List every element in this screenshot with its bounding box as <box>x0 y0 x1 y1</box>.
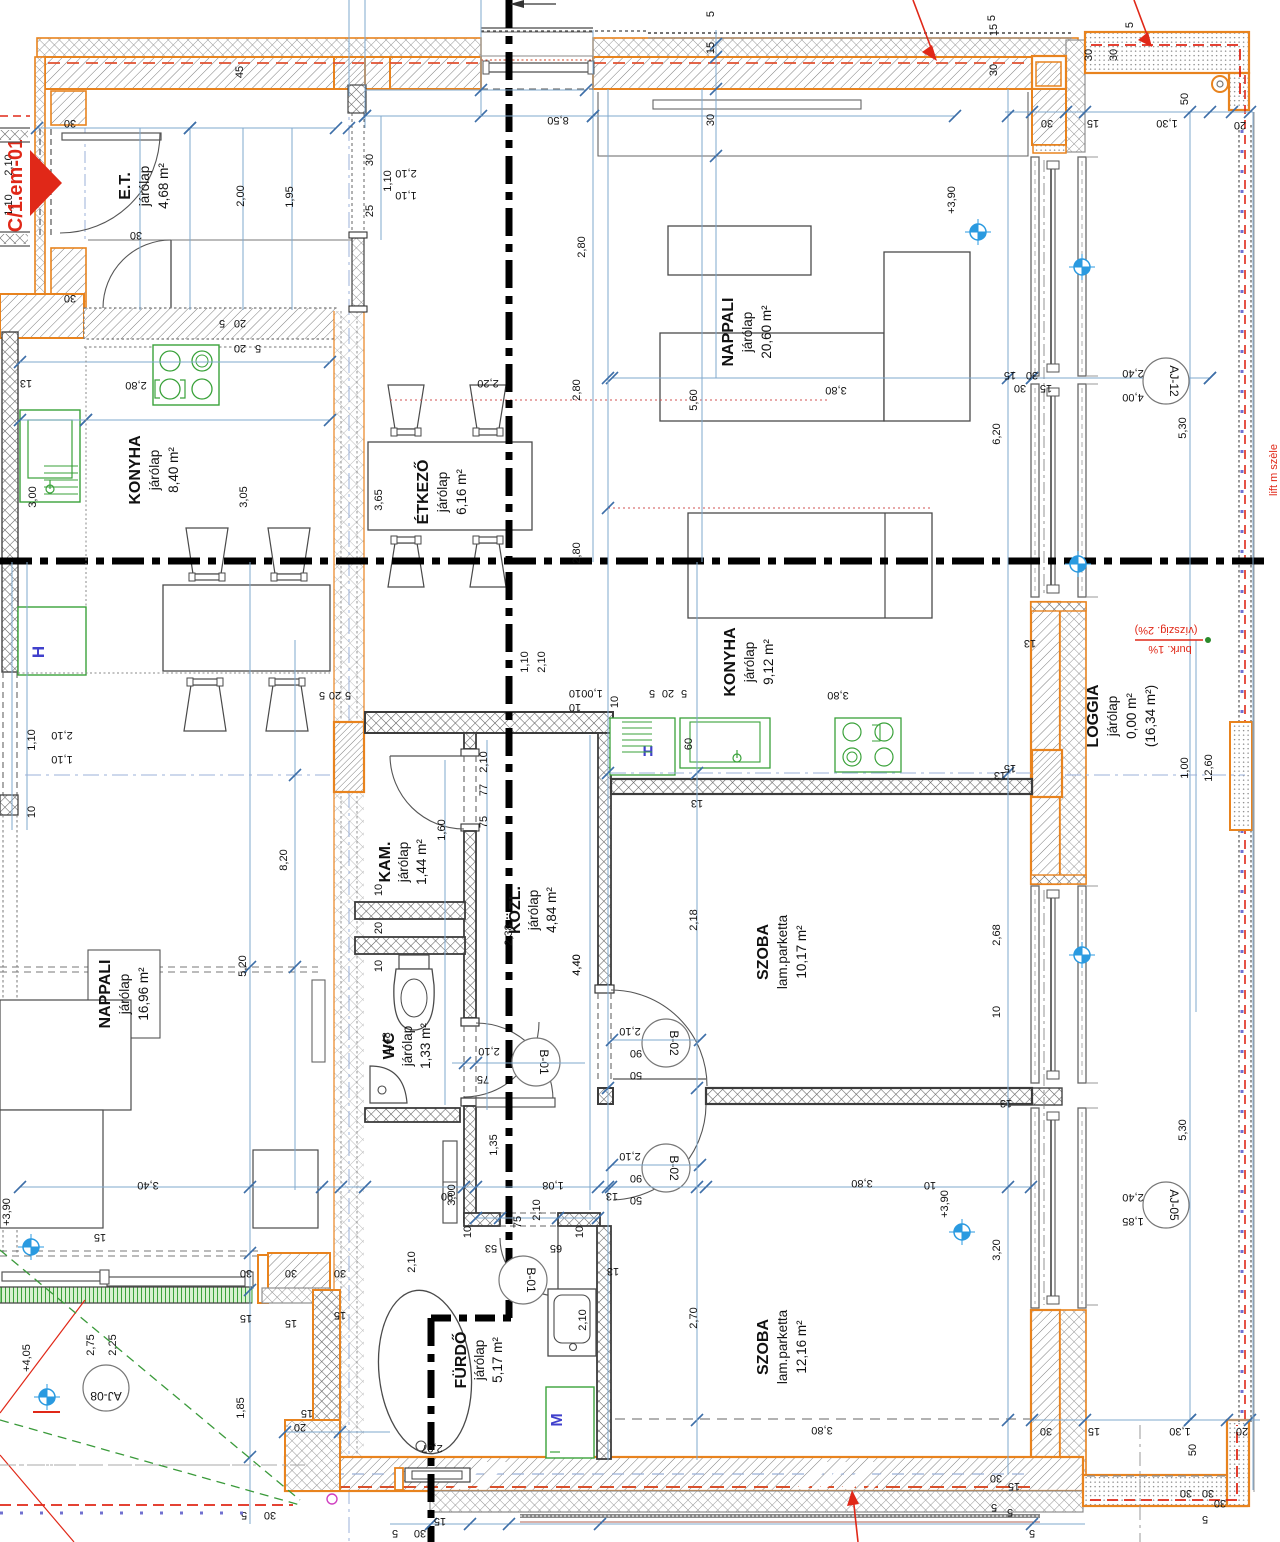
red dashed railing line <box>1244 75 1246 1420</box>
wall: szoba-szoba horizontal left post <box>598 1088 613 1104</box>
svg-text:75: 75 <box>477 1073 489 1085</box>
red arrow triangle <box>30 150 62 216</box>
E.T. south boundary line <box>88 239 352 241</box>
svg-text:15: 15 <box>1087 117 1099 129</box>
window top middle outer lines <box>481 27 593 29</box>
axis dash-dot konyha2 <box>610 772 1031 774</box>
svg-text:5,30: 5,30 <box>1177 417 1189 438</box>
svg-text:NAPPALI: NAPPALI <box>720 297 737 366</box>
svg-text:50: 50 <box>630 1194 642 1206</box>
red dashed in bottom parapet <box>1090 1425 1237 1500</box>
door label B-02 upper <box>642 1019 690 1067</box>
svg-text:13: 13 <box>20 377 32 389</box>
svg-text:2,80: 2,80 <box>125 379 146 391</box>
svg-text:30: 30 <box>64 117 76 129</box>
dim vertical 243 <box>242 128 244 310</box>
central wall orange edge left <box>333 311 335 1459</box>
svg-text:5: 5 <box>241 1509 247 1521</box>
konyha chair 4 <box>266 685 308 731</box>
svg-text:2,40: 2,40 <box>1122 1191 1143 1203</box>
window AJ-12 lower sash <box>1031 384 1086 597</box>
svg-text:20: 20 <box>329 689 341 701</box>
svg-text:KAM.: KAM. <box>377 842 394 883</box>
furdo washbasin <box>548 1289 596 1356</box>
bottom wall red dash <box>292 1486 1030 1488</box>
svg-text:30: 30 <box>1202 1487 1214 1499</box>
svg-text:2,10: 2,10 <box>478 1045 499 1057</box>
left edge stub lines <box>0 127 30 129</box>
svg-text:KONYHA: KONYHA <box>722 627 739 697</box>
svg-text:2,10: 2,10 <box>395 167 416 179</box>
door label B-02 lower <box>642 1144 690 1192</box>
svg-text:15: 15 <box>1008 1480 1020 1492</box>
svg-text:5: 5 <box>986 15 998 21</box>
dim vertical 445 <box>444 760 446 1105</box>
wall: pillar dense hatch <box>1036 62 1061 86</box>
svg-text:1,10: 1,10 <box>51 753 72 765</box>
svg-text:5,20: 5,20 <box>237 955 249 976</box>
svg-text:2,07: 2,07 <box>421 1442 442 1454</box>
loggia wall bottom cap <box>1031 875 1086 884</box>
bottom tile band <box>520 1514 1040 1518</box>
wall: furdo top right <box>558 1213 600 1226</box>
svg-text:30: 30 <box>1108 49 1120 61</box>
svg-text:8,20: 8,20 <box>278 849 290 870</box>
left exterior below (dashed wall) <box>2 815 4 1253</box>
svg-text:1,00: 1,00 <box>1179 757 1191 778</box>
wall: konyha-szoba horizontal <box>611 779 1032 794</box>
svg-text:járólap: járólap <box>1105 696 1120 738</box>
wall: bottom-right column hatch <box>1031 1310 1060 1491</box>
dim line bottom right <box>1032 1419 1260 1421</box>
svg-text:30: 30 <box>1040 1425 1052 1437</box>
dim vertical 697 <box>696 562 698 1460</box>
svg-text:8,40 m²: 8,40 m² <box>166 447 181 493</box>
red arrow bottom <box>853 1496 858 1542</box>
dim line 3,80 nappali <box>612 377 1210 379</box>
parapet bottom right column <box>1227 1420 1249 1506</box>
furdo door dashes <box>500 1212 558 1214</box>
dim vertical 295 <box>294 640 296 1190</box>
central wall orange block <box>334 722 364 792</box>
svg-text:2,10: 2,10 <box>531 1199 543 1220</box>
wall: left exterior band <box>35 57 45 311</box>
svg-text:2,10: 2,10 <box>478 751 490 772</box>
svg-text:53: 53 <box>485 1242 497 1254</box>
axis dash-dot bottom right <box>1139 1425 1141 1542</box>
bottom wall blue dash <box>292 1473 1030 1475</box>
wall: bottom main band <box>285 1457 1083 1491</box>
svg-text:járólap: járólap <box>740 312 755 354</box>
svg-text:5,30: 5,30 <box>1177 1119 1189 1140</box>
window top middle frame <box>487 63 590 72</box>
wc door arc <box>464 1022 539 1097</box>
svg-text:20: 20 <box>1236 1425 1248 1437</box>
dim line b01 row <box>452 1062 585 1064</box>
konyha chair 3 <box>184 685 226 731</box>
svg-text:15: 15 <box>1004 369 1016 381</box>
svg-text:B-01: B-01 <box>537 1049 551 1075</box>
svg-text:járólap: járólap <box>526 890 541 932</box>
svg-text:30: 30 <box>990 1472 1002 1484</box>
svg-text:5: 5 <box>705 11 717 17</box>
svg-text:30: 30 <box>334 1267 346 1279</box>
label AJ-08 <box>83 1365 129 1411</box>
hidden beam dashed szoba2 <box>615 1418 1030 1420</box>
wall: kam-wc band 1 <box>355 902 465 919</box>
svg-text:3,40: 3,40 <box>137 1179 158 1191</box>
entry door leaf <box>62 133 161 140</box>
wall: furdo-szoba partition <box>597 1226 611 1459</box>
svg-text:2,10: 2,10 <box>577 1309 589 1330</box>
dim vertical 481 <box>480 0 482 116</box>
svg-text:20,60 m²: 20,60 m² <box>759 305 774 359</box>
loggia wall top cap <box>1031 602 1086 611</box>
wall: top pier left of window <box>390 57 481 89</box>
dim vertical 1253r <box>1252 112 1254 1490</box>
dim vertical 593 <box>592 30 594 562</box>
wall: partition wc-kozl lower <box>464 1106 476 1222</box>
svg-text:2,25: 2,25 <box>107 1334 119 1355</box>
svg-text:5: 5 <box>649 687 655 699</box>
red dashed line in top parapet <box>1091 45 1240 100</box>
dim vertical 590 <box>589 735 591 1210</box>
svg-text:6,16 m²: 6,16 m² <box>454 469 469 515</box>
nappali cabinet tall <box>884 252 970 421</box>
wall: top exterior insulation strip right <box>593 38 1078 57</box>
svg-text:(16,34 m²): (16,34 m²) <box>1143 685 1158 747</box>
svg-text:30: 30 <box>705 114 717 126</box>
extra tick marks <box>1002 110 1014 122</box>
svg-text:10: 10 <box>574 1226 586 1238</box>
svg-text:+3,90: +3,90 <box>939 1190 951 1218</box>
svg-text:5: 5 <box>1124 22 1136 28</box>
dim line konyha top <box>20 361 330 363</box>
svg-text:FÜRDŐ: FÜRDŐ <box>451 1332 470 1389</box>
slab outline nappali <box>598 92 1028 156</box>
svg-text:3,05: 3,05 <box>238 486 250 507</box>
dim vertical 1196 loggia <box>1195 640 1197 1012</box>
wall: corner hatch block <box>268 1253 330 1290</box>
svg-text:2,10: 2,10 <box>51 729 72 741</box>
wall: left exterior konyha <box>2 332 18 672</box>
svg-text:15: 15 <box>301 1407 313 1419</box>
green railing band <box>0 1287 252 1303</box>
svg-text:12,16 m²: 12,16 m² <box>794 1320 809 1374</box>
dim vertical 365 <box>364 0 366 128</box>
nappali sofa <box>688 513 932 618</box>
svg-text:2,18: 2,18 <box>688 909 700 930</box>
green dashed diagonal 2 <box>0 1420 300 1505</box>
svg-text:SZOBA: SZOBA <box>755 924 772 980</box>
svg-text:9,12 m²: 9,12 m² <box>761 639 776 685</box>
dim vertical 250b <box>249 562 251 1524</box>
drain symbol in parapet corner <box>1212 76 1228 92</box>
konyha2 stove <box>835 718 901 772</box>
dim line door upper <box>612 1039 700 1041</box>
svg-text:1,35: 1,35 <box>488 1134 500 1155</box>
svg-text:5: 5 <box>255 342 261 354</box>
bottom-right column orange box <box>1033 1458 1062 1489</box>
svg-text:5,17 m²: 5,17 m² <box>490 1337 505 1383</box>
svg-text:M: M <box>549 1413 566 1426</box>
svg-text:2,80: 2,80 <box>571 542 583 563</box>
svg-text:3,80: 3,80 <box>825 384 846 396</box>
red dashed insulation line top wall <box>48 62 480 64</box>
furdo washing machine <box>546 1387 594 1458</box>
svg-text:15: 15 <box>285 1317 297 1329</box>
konyha sink unit <box>20 410 80 502</box>
window sill bar 2 <box>107 1277 247 1286</box>
etkezo chair 2 <box>470 385 506 429</box>
svg-text:60: 60 <box>683 738 695 750</box>
dim vertical 716 <box>715 30 717 378</box>
svg-text:2,40: 2,40 <box>1122 367 1143 379</box>
svg-text:6,20: 6,20 <box>991 423 1003 444</box>
svg-text:3,65: 3,65 <box>373 489 385 510</box>
svg-text:30: 30 <box>1014 382 1026 394</box>
svg-text:75: 75 <box>478 816 490 828</box>
konyha stove <box>153 345 219 405</box>
svg-text:1,85: 1,85 <box>235 1397 247 1418</box>
nappali table <box>660 333 884 421</box>
red diagonal 1 <box>0 1300 85 1413</box>
svg-text:4,00: 4,00 <box>1122 391 1143 403</box>
svg-text:45: 45 <box>234 66 246 78</box>
door B-01 leaf <box>476 1098 555 1107</box>
svg-text:2,10: 2,10 <box>536 651 548 672</box>
parapet top-right dotted <box>1085 32 1249 73</box>
wall: konyha-loggia crosshatch part <box>1060 602 1086 884</box>
svg-text:8,50: 8,50 <box>547 114 568 126</box>
svg-text:50: 50 <box>1179 93 1191 105</box>
konyha dishwasher lines <box>44 465 78 467</box>
wall: bottom insulation strip <box>430 1491 1083 1512</box>
gray edge line far right <box>1253 112 1255 1492</box>
konyha chair 2 <box>268 528 310 574</box>
door B-02 lower open leaf <box>613 1078 706 1080</box>
szoba door opening dashes <box>597 993 599 1080</box>
svg-text:15: 15 <box>334 1309 346 1321</box>
svg-text:1,08: 1,08 <box>542 1179 563 1191</box>
svg-text:30: 30 <box>130 229 142 241</box>
svg-text:2,10: 2,10 <box>406 1251 418 1272</box>
label AJ-12 <box>1143 358 1189 404</box>
dim vertical 27 <box>26 562 28 830</box>
bottom wall gray line <box>430 1511 1007 1513</box>
svg-text:járólap: járólap <box>137 166 152 208</box>
wall: furdo wing column bottom <box>285 1420 340 1491</box>
gray dash-dot left bottom <box>0 1464 250 1466</box>
svg-text:20: 20 <box>373 922 385 934</box>
bottom-left window dashed line <box>0 1250 258 1252</box>
wall: pillar top-right crosshatch <box>1066 40 1085 152</box>
svg-text:1,85: 1,85 <box>1122 1215 1143 1227</box>
green dashed diagonal 1 <box>0 1250 300 1500</box>
svg-text:B-02: B-02 <box>667 1030 681 1056</box>
door B-02 lower arc <box>613 1105 706 1200</box>
svg-text:90: 90 <box>630 1047 642 1059</box>
loggia railing inner dotted line <box>1250 125 1252 1422</box>
svg-text:30: 30 <box>988 64 1000 76</box>
svg-text:4,84 m²: 4,84 m² <box>544 887 559 933</box>
svg-text:30: 30 <box>64 292 76 304</box>
svg-text:C/1.em-01: C/1.em-01 <box>5 138 27 233</box>
wall: central wall top junction dense <box>334 57 365 89</box>
svg-text:2,80: 2,80 <box>576 236 588 257</box>
entry door swing arc <box>60 133 160 233</box>
svg-text:5: 5 <box>219 317 225 329</box>
watermark white streaks <box>452 1462 900 1489</box>
svg-text:30: 30 <box>285 1267 297 1279</box>
svg-text:2,20: 2,20 <box>477 377 498 389</box>
level symbol nappali tr <box>965 219 991 245</box>
nappali boundary dashed <box>0 966 318 968</box>
red arrow top 1 <box>913 0 933 53</box>
svg-text:NAPPALI: NAPPALI <box>97 959 114 1028</box>
magenta circle <box>327 1494 337 1504</box>
red mark under level <box>33 1411 60 1413</box>
svg-text:B-02: B-02 <box>667 1155 681 1181</box>
furdo door arc <box>500 1238 558 1296</box>
konyha2 sink <box>680 718 770 768</box>
wall: partition kam-kozl mid <box>464 831 476 1018</box>
partition cap3 <box>595 985 614 993</box>
dim vertical 702 <box>701 89 703 562</box>
dim line wall bottom edge <box>365 89 586 91</box>
dim line top right row <box>1005 111 1253 113</box>
svg-text:5: 5 <box>1202 1513 1208 1525</box>
svg-text:3,00: 3,00 <box>27 486 39 507</box>
svg-text:0,00 m²: 0,00 m² <box>1124 693 1139 739</box>
wall: top exterior main band left <box>45 57 390 89</box>
wall: top exterior insulation strip left <box>37 38 481 57</box>
svg-text:1,10: 1,10 <box>395 189 416 201</box>
svg-text:5: 5 <box>1007 1506 1013 1518</box>
svg-text:15: 15 <box>240 1312 252 1324</box>
svg-text:12,60: 12,60 <box>1203 754 1215 782</box>
wall: E.T. left pier upper <box>51 91 86 125</box>
svg-text:KÖZL.: KÖZL. <box>505 886 524 934</box>
E.T. right wall dotted lines <box>351 89 353 238</box>
slab edge dotted line above top wall <box>648 32 1072 34</box>
axis dash-dot loggia <box>1065 774 1245 776</box>
kam door cap2 <box>461 824 479 831</box>
wall: kozl top band <box>467 711 613 713</box>
central wall axis dash-dot <box>348 96 350 1542</box>
svg-text:30: 30 <box>1041 117 1053 129</box>
dim line bottom2 <box>285 1431 390 1433</box>
wall: left column of furdo wing <box>313 1290 340 1460</box>
wall: bottom-right column crosshatch <box>1060 1310 1086 1491</box>
svg-text:10: 10 <box>569 701 581 713</box>
blue tile marks bottom <box>0 1512 255 1515</box>
E.T. interior door leaf <box>170 240 172 308</box>
svg-text:burk. 1%: burk. 1% <box>1148 643 1192 655</box>
svg-text:1,10: 1,10 <box>382 170 394 191</box>
furdo bathtub <box>371 1286 480 1459</box>
svg-text:30: 30 <box>1026 369 1038 381</box>
window top middle dashed reveal <box>481 88 593 90</box>
svg-text:2,00: 2,00 <box>235 185 247 206</box>
wc door opening dashes <box>463 1026 465 1098</box>
radiator kozl <box>312 980 325 1062</box>
svg-text:(vízszig. 2%): (vízszig. 2%) <box>1135 624 1198 636</box>
svg-text:15: 15 <box>988 24 1000 36</box>
level symbol bottom left <box>34 1384 60 1410</box>
dim vertical 608 <box>607 89 609 1460</box>
svg-text:5: 5 <box>681 687 687 699</box>
level symbol window right <box>1069 254 1095 280</box>
wall: central shaft body <box>334 311 364 1459</box>
svg-text:10: 10 <box>609 696 621 708</box>
svg-text:járólap: járólap <box>435 472 450 514</box>
dim vertical 190 <box>189 128 191 310</box>
etkezo chair 1 <box>388 385 424 429</box>
dim vertical 1190 <box>1189 112 1191 1420</box>
dim line door lower <box>612 1164 700 1166</box>
dim vertical 349top <box>348 0 350 96</box>
dim line wc door <box>476 1217 598 1219</box>
slab edge thin line above top wall <box>648 37 1072 39</box>
partition cap2 <box>461 1098 479 1106</box>
konyha table <box>163 585 330 671</box>
window AJ-12 upper sash <box>1031 157 1086 376</box>
svg-text:1,30: 1,30 <box>1169 1425 1190 1437</box>
wall: pillar lower column <box>1032 89 1066 145</box>
svg-text:B-01: B-01 <box>524 1267 538 1293</box>
svg-text:ÉTKEZŐ: ÉTKEZŐ <box>413 460 432 525</box>
wall: furdo top left <box>464 1213 500 1226</box>
svg-text:járólap: járólap <box>117 974 132 1016</box>
wall: corner crosshatch strip <box>262 1288 330 1303</box>
etkezo chair 3 <box>388 543 424 587</box>
svg-text:5: 5 <box>392 1527 398 1539</box>
counter depth dotted <box>85 347 87 607</box>
E.T. axis dash-dot <box>84 128 86 240</box>
svg-text:1,00: 1,00 <box>581 687 602 699</box>
svg-text:WC: WC <box>381 1032 398 1059</box>
svg-text:lam.parketta: lam.parketta <box>775 914 790 989</box>
svg-text:2,80: 2,80 <box>571 379 583 400</box>
room labels <box>97 163 1158 1389</box>
left wall door opening dashes <box>2 672 4 795</box>
svg-text:15: 15 <box>705 42 717 54</box>
svg-text:5: 5 <box>991 1501 997 1513</box>
etkezo table <box>368 442 532 530</box>
red diagonal 2 <box>0 1455 74 1542</box>
svg-text:15: 15 <box>1004 762 1016 774</box>
kam door cap <box>461 749 479 756</box>
loggia railing outer dotted line <box>1238 125 1240 1422</box>
entry door opening dashes <box>39 129 41 235</box>
svg-text:3,80: 3,80 <box>851 1177 872 1189</box>
svg-text:5,60: 5,60 <box>688 389 700 410</box>
railing dark edges <box>0 1286 252 1288</box>
svg-text:20: 20 <box>234 317 246 329</box>
left edge red dashes top <box>0 115 30 117</box>
svg-text:4,68 m²: 4,68 m² <box>156 163 171 209</box>
window sill stubs into loggia <box>1086 156 1098 158</box>
svg-text:1,60: 1,60 <box>436 819 448 840</box>
wall: left block below door <box>0 795 18 815</box>
svg-text:SZOBA: SZOBA <box>755 1319 772 1375</box>
svg-text:50: 50 <box>630 1069 642 1081</box>
dim vertical 487 <box>486 740 488 1110</box>
svg-text:30: 30 <box>1214 1497 1226 1509</box>
svg-text:járólap: járólap <box>147 450 162 492</box>
section line vertical main <box>506 0 513 1318</box>
